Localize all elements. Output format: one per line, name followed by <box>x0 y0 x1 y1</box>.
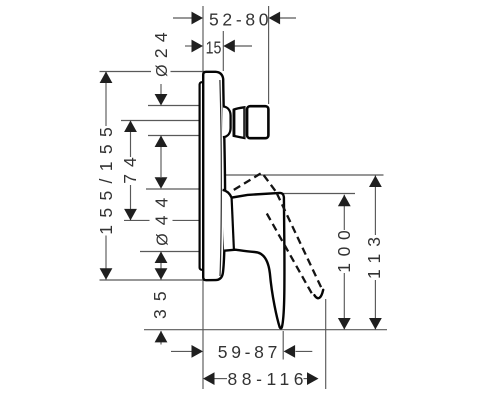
leader stem axis <box>121 120 204 122</box>
bottom reference line <box>144 329 387 331</box>
svg-text:59-87: 59-87 <box>218 342 277 362</box>
arrow 35 bottom <box>155 331 168 343</box>
dimension line 88-116 <box>213 378 227 380</box>
wall extension line <box>202 6 204 389</box>
svg-text:52-80: 52-80 <box>209 10 269 30</box>
dimension column diameters <box>160 84 162 95</box>
svg-text:100: 100 <box>334 230 354 273</box>
leader stem top <box>148 105 204 107</box>
handle cap <box>247 106 268 138</box>
plate front inner contour <box>220 80 221 276</box>
dimension column 113 <box>374 176 376 236</box>
leader 113 top <box>226 174 384 176</box>
arrow 52-80 right <box>269 12 281 25</box>
ring inner edge <box>243 108 245 138</box>
svg-text:Ø44: Ø44 <box>151 198 171 246</box>
handle neck divider <box>232 198 234 250</box>
dashed lever lower edge <box>267 214 314 297</box>
arrow 59-87 left <box>192 345 204 358</box>
leader 100 top <box>276 193 355 195</box>
arrow 155 top <box>100 72 113 84</box>
arrow 59-87 right <box>284 345 296 358</box>
leader stem bottom <box>148 135 204 137</box>
arrow 100 top <box>338 195 351 207</box>
dimension line 52-80 <box>173 17 192 19</box>
stop ring <box>234 107 245 138</box>
leader outlet axis <box>124 219 150 221</box>
arrow d44 lower <box>155 252 168 264</box>
dimension column 74 <box>130 121 132 158</box>
svg-text:Ø24: Ø24 <box>151 32 171 77</box>
arrow 155 bottom <box>100 268 113 280</box>
arrow 113 bottom <box>369 318 382 330</box>
arrow d24 upper <box>155 94 168 106</box>
plate-front extension line <box>222 31 224 71</box>
escutcheon back flange <box>200 82 205 270</box>
arrow 88-116 left <box>203 372 215 385</box>
dimension line 15 <box>185 45 192 47</box>
leader plate bottom <box>100 279 205 281</box>
cap-front extension line <box>268 6 270 104</box>
leader plate top <box>100 71 152 73</box>
arrow 15 right <box>223 40 235 53</box>
arrow 100 bottom <box>338 318 351 330</box>
arrow 113 top <box>369 176 382 188</box>
dashed handle neck (open position) <box>234 173 277 193</box>
arrow 74 bottom <box>124 209 137 221</box>
escutcheon plate (side view) <box>203 72 225 280</box>
svg-text:15: 15 <box>206 38 222 58</box>
dimension column 155/155 <box>105 72 107 127</box>
arrow 74 top <box>124 121 137 133</box>
arrow d24 lower <box>155 136 168 148</box>
arrow 88-116 right <box>307 372 319 385</box>
arrow 15 left <box>192 40 204 53</box>
stop ring left edge <box>233 109 236 136</box>
leader outlet top <box>146 188 204 190</box>
dashed lever tip <box>314 290 323 298</box>
extension line handle closed <box>282 331 284 360</box>
extension line handle open <box>325 299 327 389</box>
leader outlet bottom <box>140 251 204 253</box>
svg-text:113: 113 <box>364 237 384 279</box>
dimension column 100 <box>343 195 345 230</box>
arrow 35 top <box>155 268 168 280</box>
dashed lever upper edge <box>277 194 322 289</box>
arrow 52-80 left <box>192 12 204 25</box>
arrow d44 upper <box>155 177 168 189</box>
handle body (closed position) <box>223 190 285 329</box>
cartridge stem bulge <box>223 106 231 137</box>
dimension line 59-87 <box>171 350 192 352</box>
